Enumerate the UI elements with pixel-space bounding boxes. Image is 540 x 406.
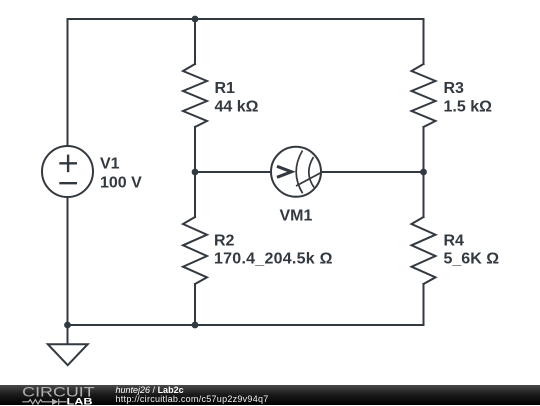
svg-text:R2: R2	[214, 233, 235, 250]
svg-text:VM1: VM1	[280, 208, 313, 225]
svg-text:1.5 kΩ: 1.5 kΩ	[444, 99, 493, 116]
svg-text:LAB: LAB	[67, 396, 93, 406]
svg-text:100 V: 100 V	[100, 175, 142, 192]
svg-text:V1: V1	[100, 156, 120, 173]
svg-text:170.4_204.5k Ω: 170.4_204.5k Ω	[214, 251, 333, 268]
svg-text:5_6K Ω: 5_6K Ω	[444, 251, 500, 268]
svg-text:R3: R3	[444, 80, 465, 97]
svg-text:R1: R1	[215, 80, 236, 97]
svg-text:44 kΩ: 44 kΩ	[215, 99, 259, 116]
svg-text:R4: R4	[444, 233, 465, 250]
